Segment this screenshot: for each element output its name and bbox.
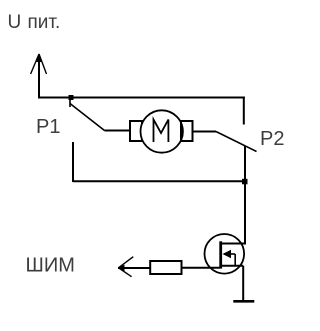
wire: PWM arrow shaft xyxy=(118,267,150,269)
ground xyxy=(233,300,254,303)
motor M1 body xyxy=(141,110,183,152)
svg-text:U: U xyxy=(8,12,22,33)
svg-text:P2: P2 xyxy=(260,128,284,150)
resistor R1 xyxy=(150,261,181,274)
svg-text:P1: P1 xyxy=(36,116,60,138)
wire: gate resistor to gate xyxy=(182,267,221,269)
svg-text:пит.: пит. xyxy=(28,12,61,33)
svg-text:ШИМ: ШИМ xyxy=(26,255,75,277)
wire: right vertical to drain xyxy=(244,146,246,245)
motor M1 left brush xyxy=(130,121,142,141)
node junction dot on supply rail xyxy=(69,95,74,100)
transistor Q1 body arrow line xyxy=(224,253,235,255)
transistor Q1 gate and channel line xyxy=(219,241,222,268)
contact P1 lower fixed (open) xyxy=(72,142,74,182)
wire: source to ground xyxy=(242,266,244,302)
switch P2 blade xyxy=(216,132,257,152)
transistor Q1 body circle xyxy=(205,234,245,274)
supply arrowhead left barb xyxy=(31,54,39,74)
node junction dot right xyxy=(242,179,248,185)
contact P2 upper fixed (open) xyxy=(243,97,245,125)
supply arrowhead right barb xyxy=(39,54,47,74)
PWM arrowhead tip fill xyxy=(118,265,125,272)
wire: bottom return xyxy=(73,180,245,182)
transistor Q1 source connection xyxy=(222,265,243,267)
wire: motor right to P2 blade xyxy=(193,131,217,133)
supply arrowhead tip fill xyxy=(36,54,42,63)
motor M1 letter M xyxy=(154,120,169,143)
wire: P1 blade to motor left xyxy=(105,130,131,132)
transistor Q1 body arrowhead xyxy=(223,250,232,258)
contact P1 pivot tick xyxy=(69,98,71,107)
transistor Q1 body to source drop xyxy=(234,254,236,266)
PWM arrowhead lower barb xyxy=(119,268,132,277)
switch P1 blade xyxy=(70,104,105,131)
motor M1 right brush xyxy=(181,121,193,141)
PWM arrowhead upper barb xyxy=(119,257,134,268)
supply arrow shaft xyxy=(38,55,40,99)
wire: top supply rail xyxy=(38,97,245,99)
transistor Q1 drain connection xyxy=(222,243,245,245)
